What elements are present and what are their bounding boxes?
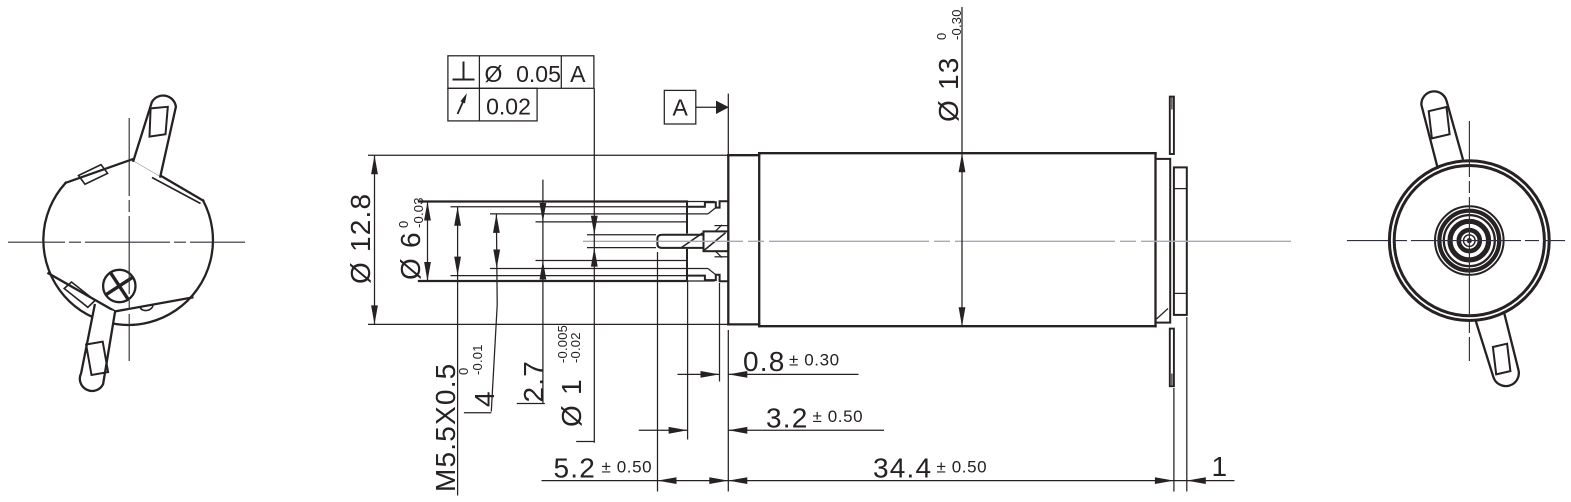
svg-text:0.02: 0.02 bbox=[486, 94, 531, 120]
svg-text:Ø 12.8: Ø 12.8 bbox=[345, 193, 376, 284]
svg-text:0.05: 0.05 bbox=[516, 61, 561, 87]
svg-text:± 0.50: ± 0.50 bbox=[813, 407, 864, 426]
svg-text:Ø 6: Ø 6 bbox=[395, 231, 426, 280]
svg-text:Ø: Ø bbox=[485, 61, 503, 87]
svg-text:34.4: 34.4 bbox=[873, 453, 932, 484]
svg-text:A: A bbox=[673, 95, 689, 121]
svg-text:2.7: 2.7 bbox=[518, 360, 549, 403]
svg-text:± 0.30: ± 0.30 bbox=[789, 351, 840, 370]
svg-text:± 0.50: ± 0.50 bbox=[937, 458, 988, 477]
svg-text:M5.5X0.5: M5.5X0.5 bbox=[430, 363, 461, 492]
svg-text:4: 4 bbox=[469, 390, 500, 407]
svg-text:A: A bbox=[570, 61, 586, 87]
svg-text:3.2: 3.2 bbox=[766, 402, 809, 433]
svg-text:1: 1 bbox=[1212, 451, 1229, 482]
svg-text:5.2: 5.2 bbox=[554, 453, 597, 484]
svg-text:Ø 13: Ø 13 bbox=[933, 56, 964, 122]
svg-text:0.8: 0.8 bbox=[743, 346, 786, 377]
svg-text:± 0.50: ± 0.50 bbox=[602, 458, 653, 477]
svg-text:Ø 1: Ø 1 bbox=[556, 378, 587, 427]
